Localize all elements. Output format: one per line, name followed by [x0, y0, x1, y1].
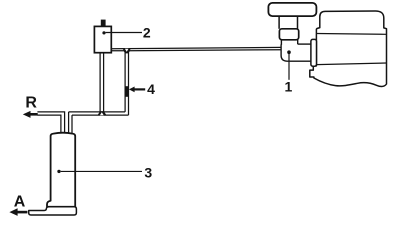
valve 2 top stub [101, 20, 106, 27]
svg-text:4: 4 [147, 81, 155, 97]
carburetor neck (left line) [280, 40, 282, 45]
black band marker on hose 4 [125, 86, 129, 97]
hose: valve 2 down-leg (right line) [103, 53, 105, 112]
hose: valve 2 to carburetor (upper horizontal, top line) [112, 47, 282, 48]
svg-text:3: 3 [144, 165, 152, 181]
leader line to label 2 [106, 32, 142, 34]
canister hose down-leg (right line) [71, 115, 73, 134]
valve box 2 [94, 26, 111, 52]
hose R horizontal (bottom line with inner elbow) [37, 115, 61, 134]
leader line to label 3 [61, 170, 142, 172]
svg-text:R: R [25, 95, 37, 112]
lower horizontal hose (top line) [69, 111, 126, 113]
engine band line [317, 63, 387, 65]
tee fitting at hose 2 / hose 4 junction [123, 48, 131, 53]
carburetor nut [279, 29, 298, 40]
callout dot 1 [287, 50, 291, 54]
tee fitting at lower junction [97, 111, 107, 115]
arrow A [9, 208, 17, 216]
hose: valve 2 down-leg (left line) [99, 53, 101, 112]
arrow marker 4 [129, 87, 135, 93]
leader line down to label 1 [288, 54, 290, 80]
svg-text:1: 1 [285, 79, 293, 95]
callout dot on valve 2 [102, 31, 105, 34]
carburetor neck (right line) [297, 40, 299, 44]
carburetor stem (right line) [297, 16, 299, 29]
hose R horizontal (top line with elbow down) [37, 112, 64, 134]
carb-to-flange connector top line [298, 43, 312, 45]
canister 3 body [47, 133, 75, 207]
hose: valve 2 to carburetor (upper horizontal, bottom line) [112, 50, 282, 51]
engine block silhouette [310, 11, 387, 87]
callout dot on canister [57, 170, 60, 173]
carburetor T-handle [268, 3, 316, 16]
svg-text:A: A [14, 194, 26, 211]
arrow R [23, 111, 31, 118]
canister hose down-leg (left line) [68, 112, 70, 134]
svg-text:2: 2 [143, 25, 151, 41]
lower horizontal hose (bottom line) [72, 114, 129, 116]
valve cover bottom line [317, 33, 386, 36]
hose 4 (vertical, left line with elbow into lower run) [124, 53, 126, 112]
carburetor elbow body [281, 44, 311, 61]
carburetor stem (left line) [278, 16, 280, 29]
canister base plate [29, 207, 77, 215]
mounting flange [311, 39, 317, 66]
hose 4 (vertical, right line with outer elbow corner) [128, 53, 130, 115]
